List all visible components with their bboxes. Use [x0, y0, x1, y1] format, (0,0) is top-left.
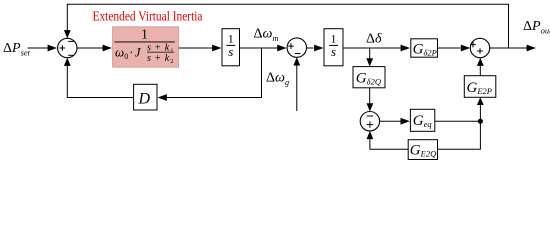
svg-text:s: s — [331, 44, 336, 59]
svg-text:ΔPout: ΔPout — [523, 19, 550, 36]
svg-text:Δωm: Δωm — [254, 27, 279, 44]
svg-text:Δωg: Δωg — [266, 70, 289, 87]
svg-text:ΔPset: ΔPset — [3, 41, 31, 58]
svg-text:s: s — [228, 44, 233, 59]
svg-text:ω0 · J: ω0 · J — [115, 45, 142, 62]
svg-text:1: 1 — [141, 27, 148, 42]
svg-text:D: D — [138, 90, 151, 107]
svg-text:Extended Virtual Inertia: Extended Virtual Inertia — [93, 10, 204, 25]
svg-text:Δδ: Δδ — [366, 31, 382, 46]
